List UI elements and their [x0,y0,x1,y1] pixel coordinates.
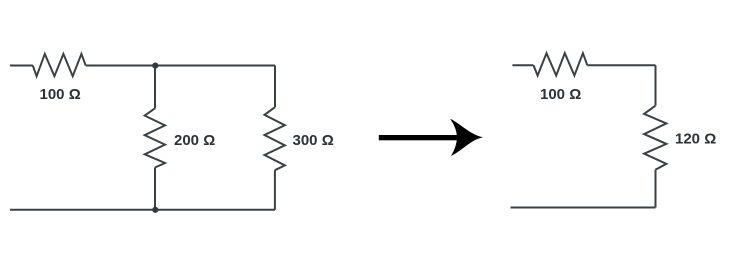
node A junction dot (top) [152,63,158,69]
wire top-left lead [10,65,33,67]
svg-text:100 Ω: 100 Ω [540,86,581,103]
svg-text:120 Ω: 120 Ω [675,131,716,148]
arrow (equivalence, shaft) [379,135,459,140]
resistor R4 100 ohm (series, right circuit) [534,53,588,75]
svg-text:100 Ω: 100 Ω [40,86,81,103]
wire right vertical bottom lead [655,170,657,208]
resistor R1 100 ohm (series, left circuit) [33,54,86,76]
wire right vertical top lead [655,65,657,106]
node B junction dot (bottom) [152,207,158,213]
wire bottom bus (right circuit) [511,207,656,209]
svg-text:200 Ω: 200 Ω [174,132,215,149]
resistor R2 200 ohm (vertical) [145,108,165,167]
svg-text:300 Ω: 300 Ω [293,132,334,149]
wire node A drop [154,66,156,109]
arrow head [450,119,483,156]
wire R2 bottom lead [154,168,156,210]
resistor R3 300 ohm (vertical) [265,107,285,170]
wire right branch top lead [274,66,276,108]
wire right branch bottom lead [274,170,276,210]
wire top bus to right corner [86,65,275,67]
wire bottom bus [10,209,275,211]
wire top-left lead (right circuit) [512,64,533,66]
wire top bus to right corner (right circuit) [587,64,655,66]
resistor R5 120 ohm (vertical) [644,106,666,170]
